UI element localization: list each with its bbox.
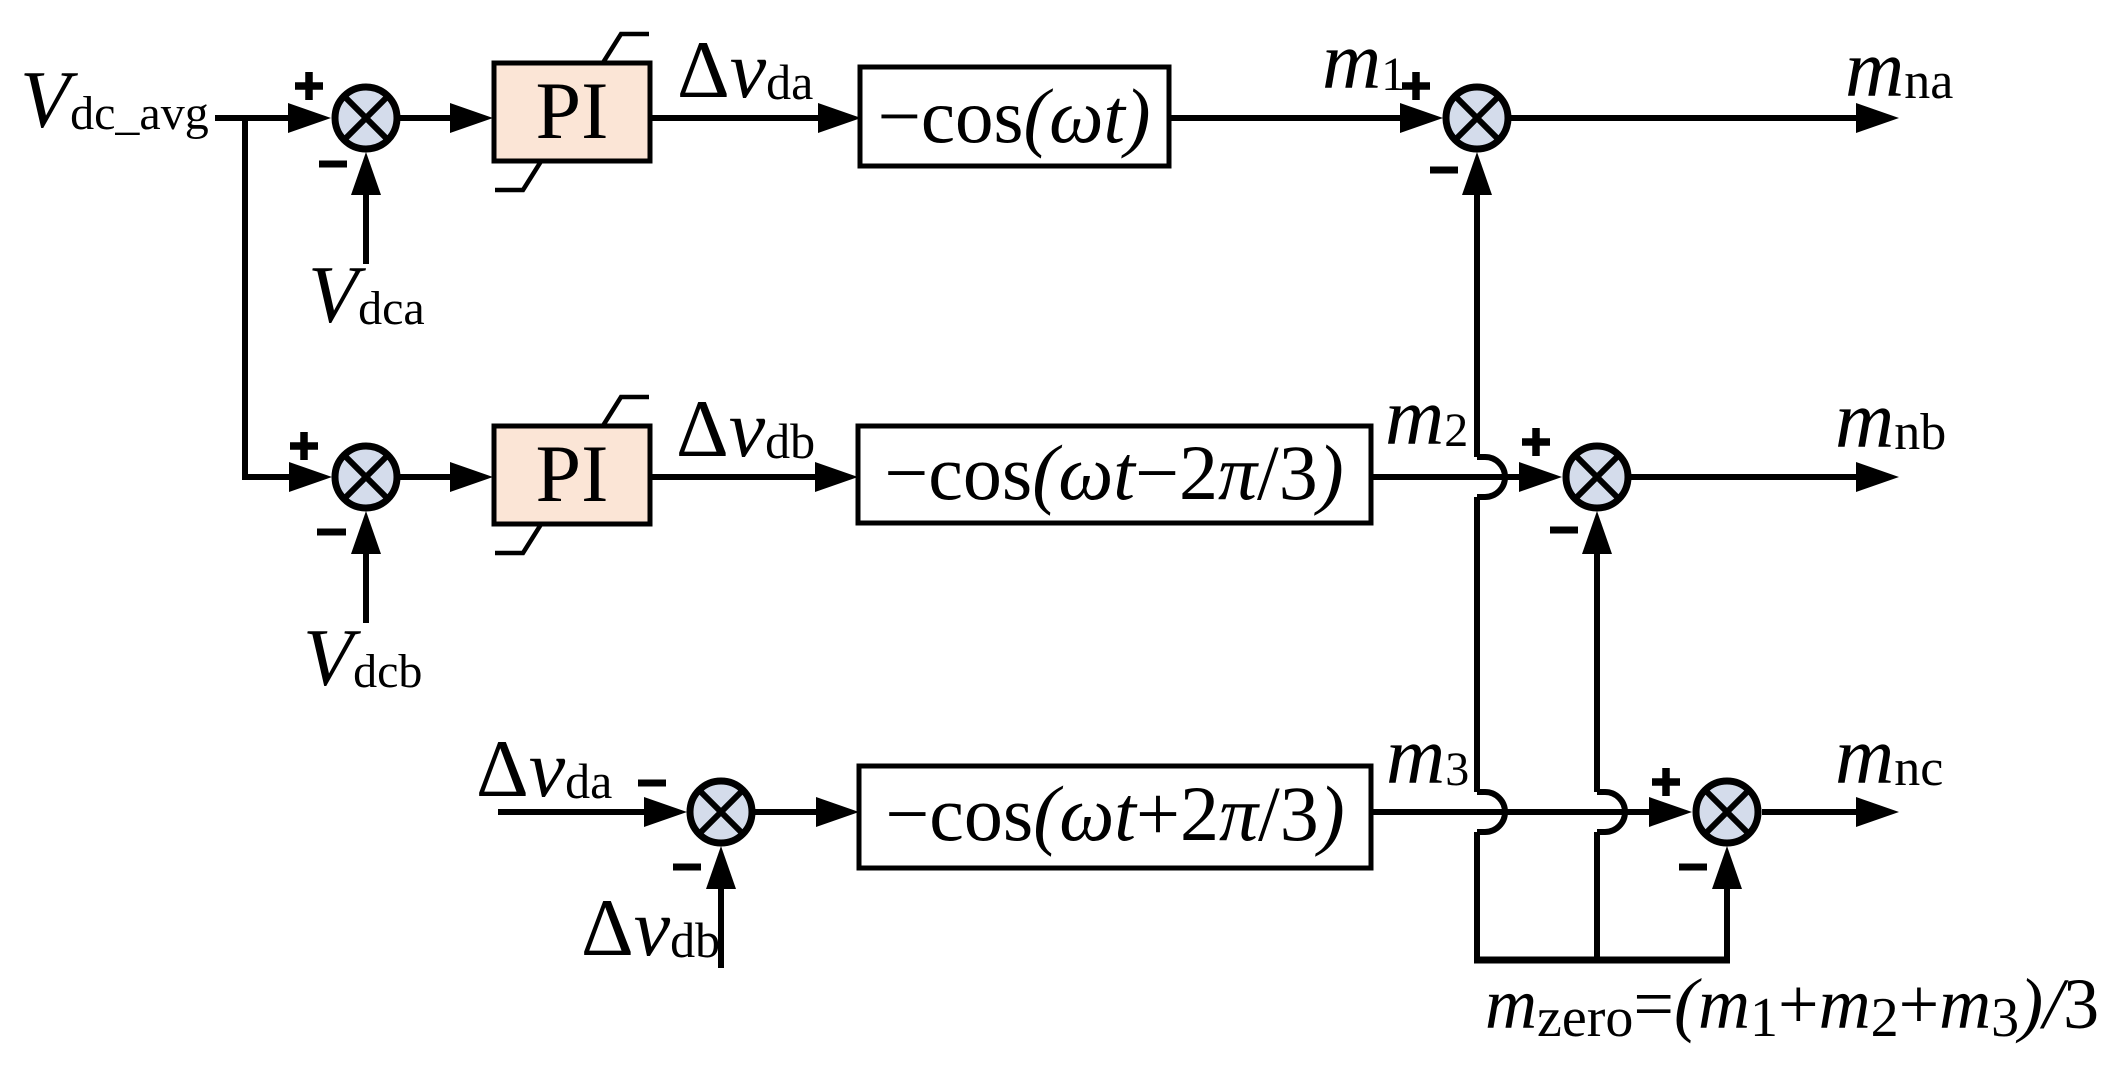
- svg-text:PI: PI: [536, 428, 609, 519]
- svg-text:−cos(ωt): −cos(ωt): [877, 73, 1150, 159]
- svg-text:PI: PI: [536, 65, 609, 156]
- svg-text:−cos(ωt+2π/3): −cos(ωt+2π/3): [885, 770, 1344, 857]
- svg-text:−cos(ωt−2π/3): −cos(ωt−2π/3): [884, 429, 1343, 516]
